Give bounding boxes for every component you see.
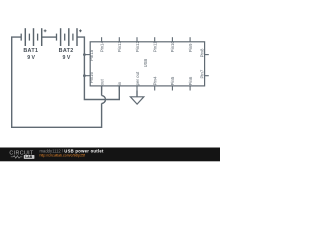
pin stubs left edge: pins 15,16 [84, 55, 90, 76]
junction dot at pin16 / battery wire [83, 74, 86, 77]
svg-text:USB: USB [143, 59, 148, 68]
svg-text:Pin7: Pin7 [200, 69, 205, 78]
watermark CircuitLab logo [9, 151, 34, 160]
svg-text:Pin15: Pin15 [89, 49, 94, 61]
ground symbol on per out pin [130, 91, 143, 105]
battery BAT2 [57, 28, 78, 46]
pin stubs top edge: pins 14,13,12,11,10,9 [102, 37, 191, 42]
svg-text:Pin8: Pin8 [200, 48, 205, 57]
svg-text:9 V: 9 V [27, 55, 35, 61]
svg-text:in: in [117, 81, 122, 85]
battery BAT2 plus sign [79, 29, 82, 32]
svg-text:Pin4: Pin4 [153, 76, 158, 85]
svg-text:Pin16: Pin16 [89, 72, 94, 84]
svg-text:Pin6: Pin6 [188, 76, 193, 85]
svg-text:Pin13: Pin13 [117, 41, 122, 53]
wire: out pin vertical above hop [101, 86, 103, 96]
pin stubs right edge: pins 8,7 [205, 55, 209, 76]
svg-text:per out: per out [135, 71, 140, 85]
battery BAT1 plus sign [44, 29, 47, 32]
wire: between BAT1 + and BAT2 - [42, 36, 57, 38]
junction dot at pin15 / battery wire [83, 53, 86, 56]
svg-text:Pin9: Pin9 [188, 43, 193, 52]
svg-text:Pin5: Pin5 [170, 76, 175, 85]
wire: BAT2 + to the right, down past left pins, across to in pin [77, 37, 119, 99]
wire: left loop from BAT1 negative down and across bottom to out pin [12, 37, 102, 127]
battery BAT1 [21, 28, 42, 46]
svg-text:Pin14: Pin14 [99, 41, 104, 53]
pin stubs bottom edge: pins out,in,per out,4,5,6 [102, 86, 191, 91]
svg-text:Pin12: Pin12 [135, 41, 140, 53]
wire: hop where out-pin wire crosses over horizontal wire (no connection) [102, 96, 106, 104]
svg-text:9 V: 9 V [63, 55, 71, 61]
svg-text:BAT2: BAT2 [59, 48, 74, 54]
svg-text:BAT1: BAT1 [23, 48, 38, 54]
svg-text:http://circuitlab.com/c/9dtp25: http://circuitlab.com/c/9dtp25f [40, 154, 86, 158]
watermark bar [0, 148, 220, 162]
svg-text:LAB: LAB [25, 155, 33, 159]
svg-text:Pin11: Pin11 [153, 41, 158, 52]
IC U1 "USB" body [90, 42, 204, 86]
svg-text:out: out [99, 79, 104, 86]
svg-text:Pin10: Pin10 [170, 41, 175, 53]
